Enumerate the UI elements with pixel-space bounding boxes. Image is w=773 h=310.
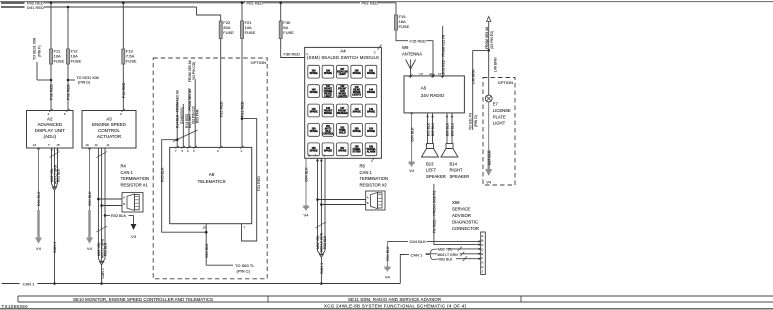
svg-text:RIGHT: RIGHT: [450, 168, 463, 173]
svg-text:DIAGNOSTIC: DIAGNOSTIC: [452, 220, 478, 225]
svg-text:E: E: [482, 252, 484, 256]
svg-text:CONNECTOR: CONNECTOR: [452, 226, 479, 231]
svg-text:V4: V4: [409, 168, 415, 173]
svg-text:C: C: [482, 243, 484, 247]
svg-text:SPARE: SPARE: [367, 130, 375, 133]
svg-text:H: H: [482, 265, 484, 269]
svg-text:15: 15: [57, 143, 61, 147]
svg-text:FUSE: FUSE: [283, 30, 294, 35]
svg-text:R02 BLK: R02 BLK: [57, 168, 61, 182]
svg-text:FUSE: FUSE: [399, 24, 410, 29]
svg-text:12: 12: [95, 143, 99, 147]
svg-text:LICENSE: LICENSE: [493, 108, 511, 113]
svg-text:SPARE: SPARE: [310, 130, 318, 133]
svg-text:BTTNS: BTTNS: [353, 151, 361, 154]
svg-text:E7: E7: [493, 102, 499, 107]
svg-text:B05 BLK: B05 BLK: [426, 122, 430, 136]
svg-text:M02 YEL: M02 YEL: [438, 248, 452, 252]
svg-text:E24 BLK: E24 BLK: [488, 150, 492, 165]
svg-text:CONTROL: CONTROL: [98, 128, 120, 133]
svg-text:F30 RED: F30 RED: [284, 52, 301, 57]
svg-text:13: 13: [203, 225, 207, 229]
svg-text:TO SE31 X08: TO SE31 X08: [33, 38, 37, 60]
svg-text:CAN 1: CAN 1: [411, 252, 424, 257]
svg-text:A4: A4: [340, 48, 346, 53]
svg-text:FUSE: FUSE: [71, 59, 82, 64]
svg-text:G: G: [482, 261, 484, 265]
svg-text:ANTENNA: ANTENNA: [402, 51, 422, 56]
svg-text:XCG 24WLE-8B SYSTEM FUNCTIONAL: XCG 24WLE-8B SYSTEM FUNCTIONAL SCHEMATIC…: [324, 303, 467, 308]
svg-text:G04 BLK: G04 BLK: [305, 167, 309, 182]
svg-text:R02 BLK: R02 BLK: [111, 214, 127, 218]
svg-text:CAN 1: CAN 1: [121, 170, 134, 175]
svg-text:P02 RED: P02 RED: [50, 84, 54, 100]
svg-text:R02 BLK: R02 BLK: [439, 258, 454, 262]
svg-text:10: 10: [86, 143, 90, 147]
svg-text:LIGHT: LIGHT: [339, 73, 347, 76]
svg-text:SE10 MONITOR, ENGINE SPEED CON: SE10 MONITOR, ENGINE SPEED CONTROLLER AN…: [73, 297, 213, 302]
svg-text:B14: B14: [450, 161, 458, 166]
svg-text:WASHER: WASHER: [337, 112, 348, 115]
svg-text:ADVANCED: ADVANCED: [37, 122, 62, 127]
svg-text:HOLD: HOLD: [339, 131, 346, 134]
svg-text:D04 BLK: D04 BLK: [37, 191, 41, 206]
svg-text:LIGHT: LIGHT: [493, 121, 506, 126]
svg-text:R08 RED - FROM S12 F8: R08 RED - FROM S12 F8: [442, 35, 446, 74]
svg-text:WIPER: WIPER: [324, 112, 332, 115]
svg-text:RESISTOR #1: RESISTOR #1: [121, 183, 149, 188]
svg-text:U7: U7: [420, 72, 424, 76]
svg-text:A5: A5: [421, 86, 427, 91]
svg-text:V4: V4: [385, 275, 391, 280]
svg-text:(X2 PIN CD): (X2 PIN CD): [192, 62, 196, 80]
svg-text:V4: V4: [36, 246, 42, 251]
svg-text:L46 BRN: L46 BRN: [471, 69, 475, 84]
svg-text:P02 RED: P02 RED: [362, 1, 379, 6]
svg-text:(PIN C): (PIN C): [237, 269, 251, 274]
svg-text:R05 BLK: R05 BLK: [160, 167, 164, 182]
svg-text:W9: W9: [402, 45, 409, 50]
svg-text:G04 BLK: G04 BLK: [88, 191, 92, 206]
svg-text:SPEAKER: SPEAKER: [426, 174, 446, 179]
svg-text:LIGHTS: LIGHTS: [352, 94, 361, 97]
svg-text:B: B: [482, 239, 484, 243]
svg-text:TERMINATION: TERMINATION: [360, 176, 389, 181]
svg-text:SPARE: SPARE: [338, 149, 346, 152]
svg-text:B05 BLU: B05 BLU: [431, 122, 435, 136]
svg-text:B13: B13: [426, 161, 434, 166]
svg-text:V3: V3: [131, 234, 137, 239]
svg-text:11: 11: [107, 143, 110, 147]
svg-text:F21 RED: F21 RED: [257, 176, 261, 191]
svg-text:M03 LT GRN: M03 LT GRN: [438, 253, 459, 257]
svg-text:(PIN F): (PIN F): [38, 45, 42, 57]
svg-text:R05 PNK: R05 PNK: [196, 108, 200, 123]
svg-text:V4: V4: [486, 180, 492, 185]
svg-text:24V RADIO: 24V RADIO: [421, 93, 445, 98]
svg-text:R02 BLK: R02 BLK: [104, 242, 108, 256]
svg-text:(PIN G): (PIN G): [474, 115, 478, 127]
svg-text:L46 BRN: L46 BRN: [493, 57, 497, 72]
svg-text:TO S31 F9: TO S31 F9: [469, 113, 473, 130]
svg-text:F13 RED: F13 RED: [122, 82, 126, 98]
svg-text:14: 14: [33, 143, 37, 147]
svg-text:B06 BLU: B06 BLU: [451, 122, 455, 136]
svg-text:TELEMATICS: TELEMATICS: [198, 179, 226, 184]
svg-text:SPARE: SPARE: [367, 111, 375, 114]
svg-text:G04 BLK: G04 BLK: [410, 239, 427, 244]
svg-text:TO S63 TL: TO S63 TL: [235, 263, 255, 268]
svg-text:CAN 1: CAN 1: [360, 170, 373, 175]
svg-text:R4: R4: [121, 164, 127, 169]
svg-text:RESISTOR #2: RESISTOR #2: [360, 183, 388, 188]
svg-text:SPARE: SPARE: [324, 72, 332, 75]
svg-text:FUSE: FUSE: [223, 30, 234, 35]
svg-text:LEFT: LEFT: [426, 168, 437, 173]
svg-text:R02 BLK: R02 BLK: [323, 235, 327, 249]
svg-text:LIGHTS: LIGHTS: [338, 95, 347, 98]
svg-text:SPARE: SPARE: [310, 111, 318, 114]
svg-text:A: A: [482, 234, 484, 238]
svg-text:F2 RED - FROM S08 F2: F2 RED - FROM S08 F2: [432, 191, 437, 233]
svg-text:A2: A2: [47, 116, 53, 121]
svg-text:(PIN D): (PIN D): [78, 81, 90, 85]
svg-text:SPARE: SPARE: [310, 72, 318, 75]
svg-text:SPARE: SPARE: [367, 91, 375, 94]
svg-text:CAN 1: CAN 1: [23, 281, 36, 286]
svg-text:F21 RED: F21 RED: [241, 101, 245, 117]
svg-text:G04 BLK: G04 BLK: [386, 246, 390, 261]
svg-text:D: D: [482, 247, 484, 251]
svg-text:LIGHT: LIGHT: [324, 95, 332, 98]
svg-text:SPARE: SPARE: [310, 91, 318, 94]
svg-text:(X2 PIN E2): (X2 PIN E2): [490, 31, 494, 49]
svg-text:OPTION: OPTION: [251, 60, 266, 65]
svg-text:SPARE: SPARE: [367, 72, 375, 75]
svg-text:(SSM) SEALED SWITCH MODULE: (SSM) SEALED SWITCH MODULE: [307, 55, 379, 60]
svg-text:SE11 SSM, RADIO AND SERVICE AD: SE11 SSM, RADIO AND SERVICE ADVISOR: [348, 297, 441, 302]
svg-text:SPARE: SPARE: [353, 130, 361, 133]
svg-text:DISPLAY UNIT: DISPLAY UNIT: [35, 128, 66, 133]
svg-text:FUSE: FUSE: [54, 59, 65, 64]
svg-text:ENGINE SPEED: ENGINE SPEED: [92, 122, 127, 127]
svg-text:SPARE: SPARE: [353, 111, 361, 114]
svg-text:TX1066350: TX1066350: [2, 304, 29, 309]
svg-text:FUSE: FUSE: [245, 30, 256, 35]
svg-text:V4: V4: [304, 213, 310, 218]
svg-text:G04 BLK: G04 BLK: [410, 127, 414, 142]
svg-text:PLATE: PLATE: [493, 114, 506, 119]
svg-text:X58: X58: [452, 200, 460, 205]
svg-text:CAN 1: CAN 1: [101, 268, 105, 278]
svg-text:R14 BLK - FROM SE6 A8: R14 BLK - FROM SE6 A8: [176, 90, 180, 128]
svg-text:SPARE: SPARE: [353, 72, 361, 75]
svg-text:V4: V4: [87, 246, 93, 251]
svg-text:SPARE: SPARE: [310, 149, 318, 152]
svg-text:SERVICE: SERVICE: [452, 207, 471, 212]
svg-text:F22 RED: F22 RED: [219, 101, 223, 117]
svg-text:G04 BLK: G04 BLK: [205, 243, 209, 258]
svg-text:P02 RED: P02 RED: [247, 1, 264, 6]
svg-text:CAN 1: CAN 1: [320, 263, 324, 274]
svg-text:R5: R5: [360, 164, 366, 169]
svg-text:(ADU): (ADU): [44, 134, 57, 139]
svg-text:SPARE: SPARE: [324, 149, 332, 152]
svg-text:A2: A2: [429, 72, 433, 76]
svg-text:A3: A3: [106, 116, 112, 121]
svg-text:ACTUATOR: ACTUATOR: [97, 134, 122, 139]
svg-text:ADVISOR: ADVISOR: [452, 213, 471, 218]
svg-text:TERMINATION: TERMINATION: [121, 176, 150, 181]
svg-text:ALARM: ALARM: [367, 151, 376, 154]
svg-text:CONTROL: CONTROL: [322, 133, 334, 136]
svg-text:OPTION: OPTION: [498, 80, 513, 85]
svg-text:SPEAKER: SPEAKER: [450, 174, 470, 179]
svg-text:A8: A8: [209, 172, 215, 177]
svg-text:TO SE31 X08: TO SE31 X08: [77, 76, 99, 80]
svg-text:D41 RED: D41 RED: [27, 5, 44, 10]
svg-text:F15 RED: F15 RED: [410, 38, 427, 43]
svg-text:FUSE: FUSE: [126, 59, 137, 64]
svg-text:CAN 1: CAN 1: [53, 242, 57, 253]
svg-text:B06 BLK: B06 BLK: [446, 122, 450, 136]
svg-text:P02 RED: P02 RED: [67, 84, 71, 100]
